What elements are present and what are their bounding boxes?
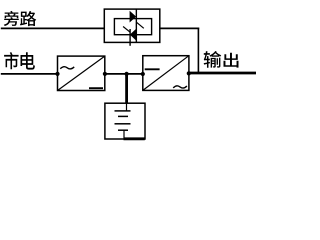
static switch center vertical bar (SCR cathode bars) <box>135 9 137 42</box>
rectifier DC bar <box>89 87 103 89</box>
battery plate 2 (short, -) <box>118 115 128 117</box>
wire: bypass vertical drop to output bus <box>197 28 199 74</box>
battery plate 1 (long, +) <box>115 110 131 112</box>
static bypass switch outer box <box>104 9 160 42</box>
wire: rectifier to inverter DC bus <box>105 73 143 75</box>
SCR2 gate lead <box>123 27 130 33</box>
label text 出 (output) <box>223 53 238 68</box>
label text 路 (bypass) <box>20 11 36 26</box>
junction dot: rectifier output <box>103 72 107 76</box>
rectifier diagonal <box>58 56 105 90</box>
label text 输 (output) <box>204 51 222 68</box>
battery bottom lead <box>123 130 125 139</box>
junction dot: inverter input <box>141 72 145 76</box>
thyristor SCR1 (top, pointing right) <box>130 11 137 23</box>
label text 旁 (bypass) <box>4 11 19 26</box>
static switch inner parallel loop <box>114 19 151 35</box>
inverter DC bar <box>145 68 160 70</box>
wire: static switch to corner <box>160 27 199 29</box>
thyristor SCR2 (bottom, pointing left) <box>130 29 136 41</box>
battery box <box>105 103 145 139</box>
rectifier AC tilde <box>60 67 74 69</box>
inverter diagonal <box>143 56 189 91</box>
junction dot: mains / rectifier input <box>55 72 59 76</box>
battery plate 4 (short, -) <box>118 129 128 131</box>
wire: mains input (市电) horizontal <box>1 73 58 75</box>
junction dot: battery tap on DC bus <box>125 72 129 76</box>
wire: inverter output to 输出 (thick) <box>189 72 256 75</box>
inverter AC tilde <box>173 86 187 88</box>
junction dot: inverter output <box>187 71 191 75</box>
label text 市 (mains) <box>4 52 18 69</box>
battery top lead (thin) <box>126 103 128 111</box>
battery plate 3 (long, +) <box>115 123 131 125</box>
SCR2 cathode bar <box>129 29 131 46</box>
label text 电 (mains) <box>20 52 34 69</box>
wire: DC bus down to battery (thick) <box>125 74 128 103</box>
SCR1 gate lead <box>136 22 143 28</box>
rectifier box (AC/DC) <box>58 56 105 90</box>
inverter box (DC/AC) <box>143 56 189 91</box>
wire: bypass input (旁路) horizontal <box>1 27 105 29</box>
battery negative return (thick) along box bottom <box>124 137 145 140</box>
